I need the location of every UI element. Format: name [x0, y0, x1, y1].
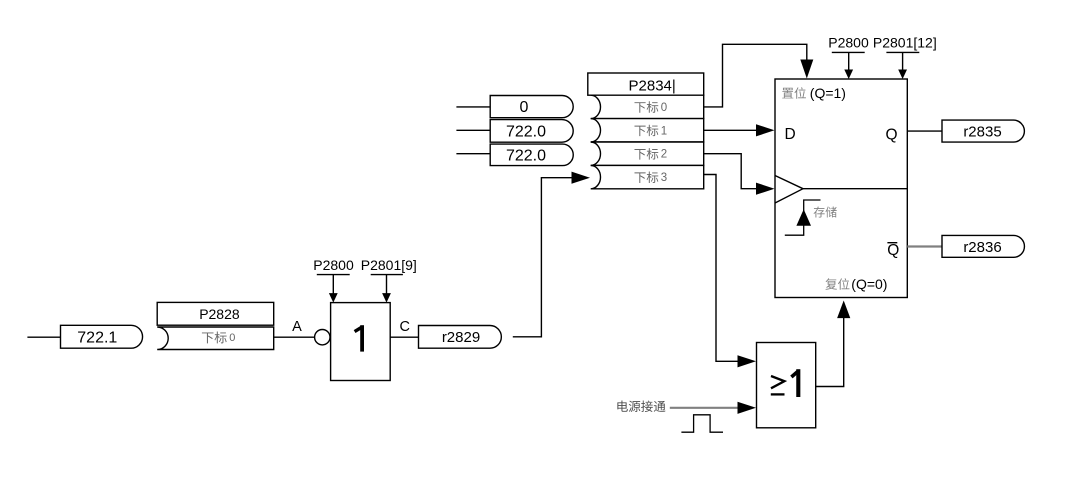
svg-text:1: 1	[661, 125, 667, 137]
svg-text:Q: Q	[886, 127, 898, 144]
svg-text:D: D	[785, 126, 796, 143]
wire to connector 722.0 b	[456, 153, 490, 155]
wire 电源接通 to OR gate	[670, 402, 756, 414]
connector r2835	[942, 120, 1024, 142]
inverter gate U1 box	[331, 303, 391, 381]
wire 下标0 to set input	[704, 44, 814, 107]
wire r2829 to 下标3 input	[513, 172, 590, 337]
svg-text:A: A	[292, 319, 302, 335]
node C label	[400, 319, 410, 335]
svg-text:0: 0	[229, 332, 235, 344]
svg-text:(Q=1): (Q=1)	[810, 85, 846, 101]
mux index row 下标 0	[591, 95, 704, 118]
pulse symbol	[681, 415, 723, 432]
D flip-flop box	[775, 79, 907, 298]
label P2801[9]	[361, 257, 417, 275]
label P2801[12]	[873, 35, 937, 53]
wire 下标2 to clock input	[704, 154, 775, 195]
parameter box P2828	[157, 302, 274, 325]
svg-text:P2801[9]: P2801[9]	[361, 257, 417, 273]
wire OR output to reset input	[816, 301, 851, 387]
svg-text:722.1: 722.1	[77, 330, 117, 347]
svg-text:3: 3	[661, 172, 667, 184]
node A label	[292, 319, 302, 335]
arrow P2800 to flip-flop	[844, 52, 853, 79]
flip-flop divider	[803, 188, 907, 190]
clock triangle	[775, 176, 803, 204]
label Qbar	[887, 242, 899, 259]
P2828 index row 下标 0	[157, 327, 274, 350]
connector 722.1	[61, 325, 143, 348]
svg-text:r2835: r2835	[963, 124, 1001, 141]
svg-text:P2800: P2800	[828, 35, 869, 51]
label P2800 at flip-flop	[828, 35, 869, 53]
wire node C	[390, 336, 418, 338]
connector r2836	[942, 235, 1024, 257]
svg-text:C: C	[400, 319, 410, 335]
mux index row 下标 3	[591, 165, 704, 188]
connector 722.0 b	[490, 144, 573, 166]
label 置位 (Q=1)	[782, 85, 846, 101]
wire Q to r2835	[907, 130, 942, 132]
svg-text:P2800: P2800	[313, 257, 354, 273]
label P2800 at inverter	[313, 257, 354, 275]
svg-text:2: 2	[661, 149, 667, 161]
svg-text:r2836: r2836	[963, 239, 1001, 256]
connector 0	[490, 96, 573, 118]
label 存储	[814, 206, 837, 217]
svg-text:0: 0	[661, 102, 667, 114]
label 复位 (Q=0)	[825, 276, 887, 292]
mux index row 下标 1	[591, 119, 704, 142]
wire 下标3 to OR gate	[704, 175, 756, 368]
svg-text:P2834|: P2834|	[629, 78, 676, 95]
parameter box P2834	[588, 73, 704, 95]
arrow P2801[12] to flip-flop	[898, 52, 907, 79]
wire 下标1 to D input	[704, 124, 775, 136]
svg-text:722.0: 722.0	[506, 123, 546, 140]
mux index row 下标 2	[591, 142, 704, 165]
svg-text:P2801[12]: P2801[12]	[873, 35, 937, 51]
arrow P2801[9] to inverter	[382, 275, 391, 303]
arrow P2800 to inverter	[329, 275, 338, 303]
connector r2829	[419, 326, 502, 349]
inverter bubble	[315, 330, 330, 345]
wire to connector 722.0 a	[456, 129, 490, 131]
connector 722.0 a	[490, 120, 573, 143]
OR gate box	[757, 343, 816, 428]
svg-text:Q: Q	[887, 242, 899, 259]
wire Qbar to r2836	[907, 245, 942, 247]
svg-text:r2829: r2829	[442, 329, 480, 346]
svg-text:(Q=0): (Q=0)	[851, 276, 887, 292]
svg-text:0: 0	[520, 99, 529, 116]
wire to connector 0	[456, 106, 490, 108]
label D	[785, 126, 796, 143]
label Q	[886, 127, 898, 144]
wire node A	[274, 336, 315, 338]
label 电源接通	[617, 401, 665, 413]
svg-text:722.0: 722.0	[506, 147, 546, 164]
wire input to 722.1	[27, 336, 60, 338]
storage edge symbol	[785, 200, 821, 235]
svg-text:P2828: P2828	[199, 306, 240, 322]
